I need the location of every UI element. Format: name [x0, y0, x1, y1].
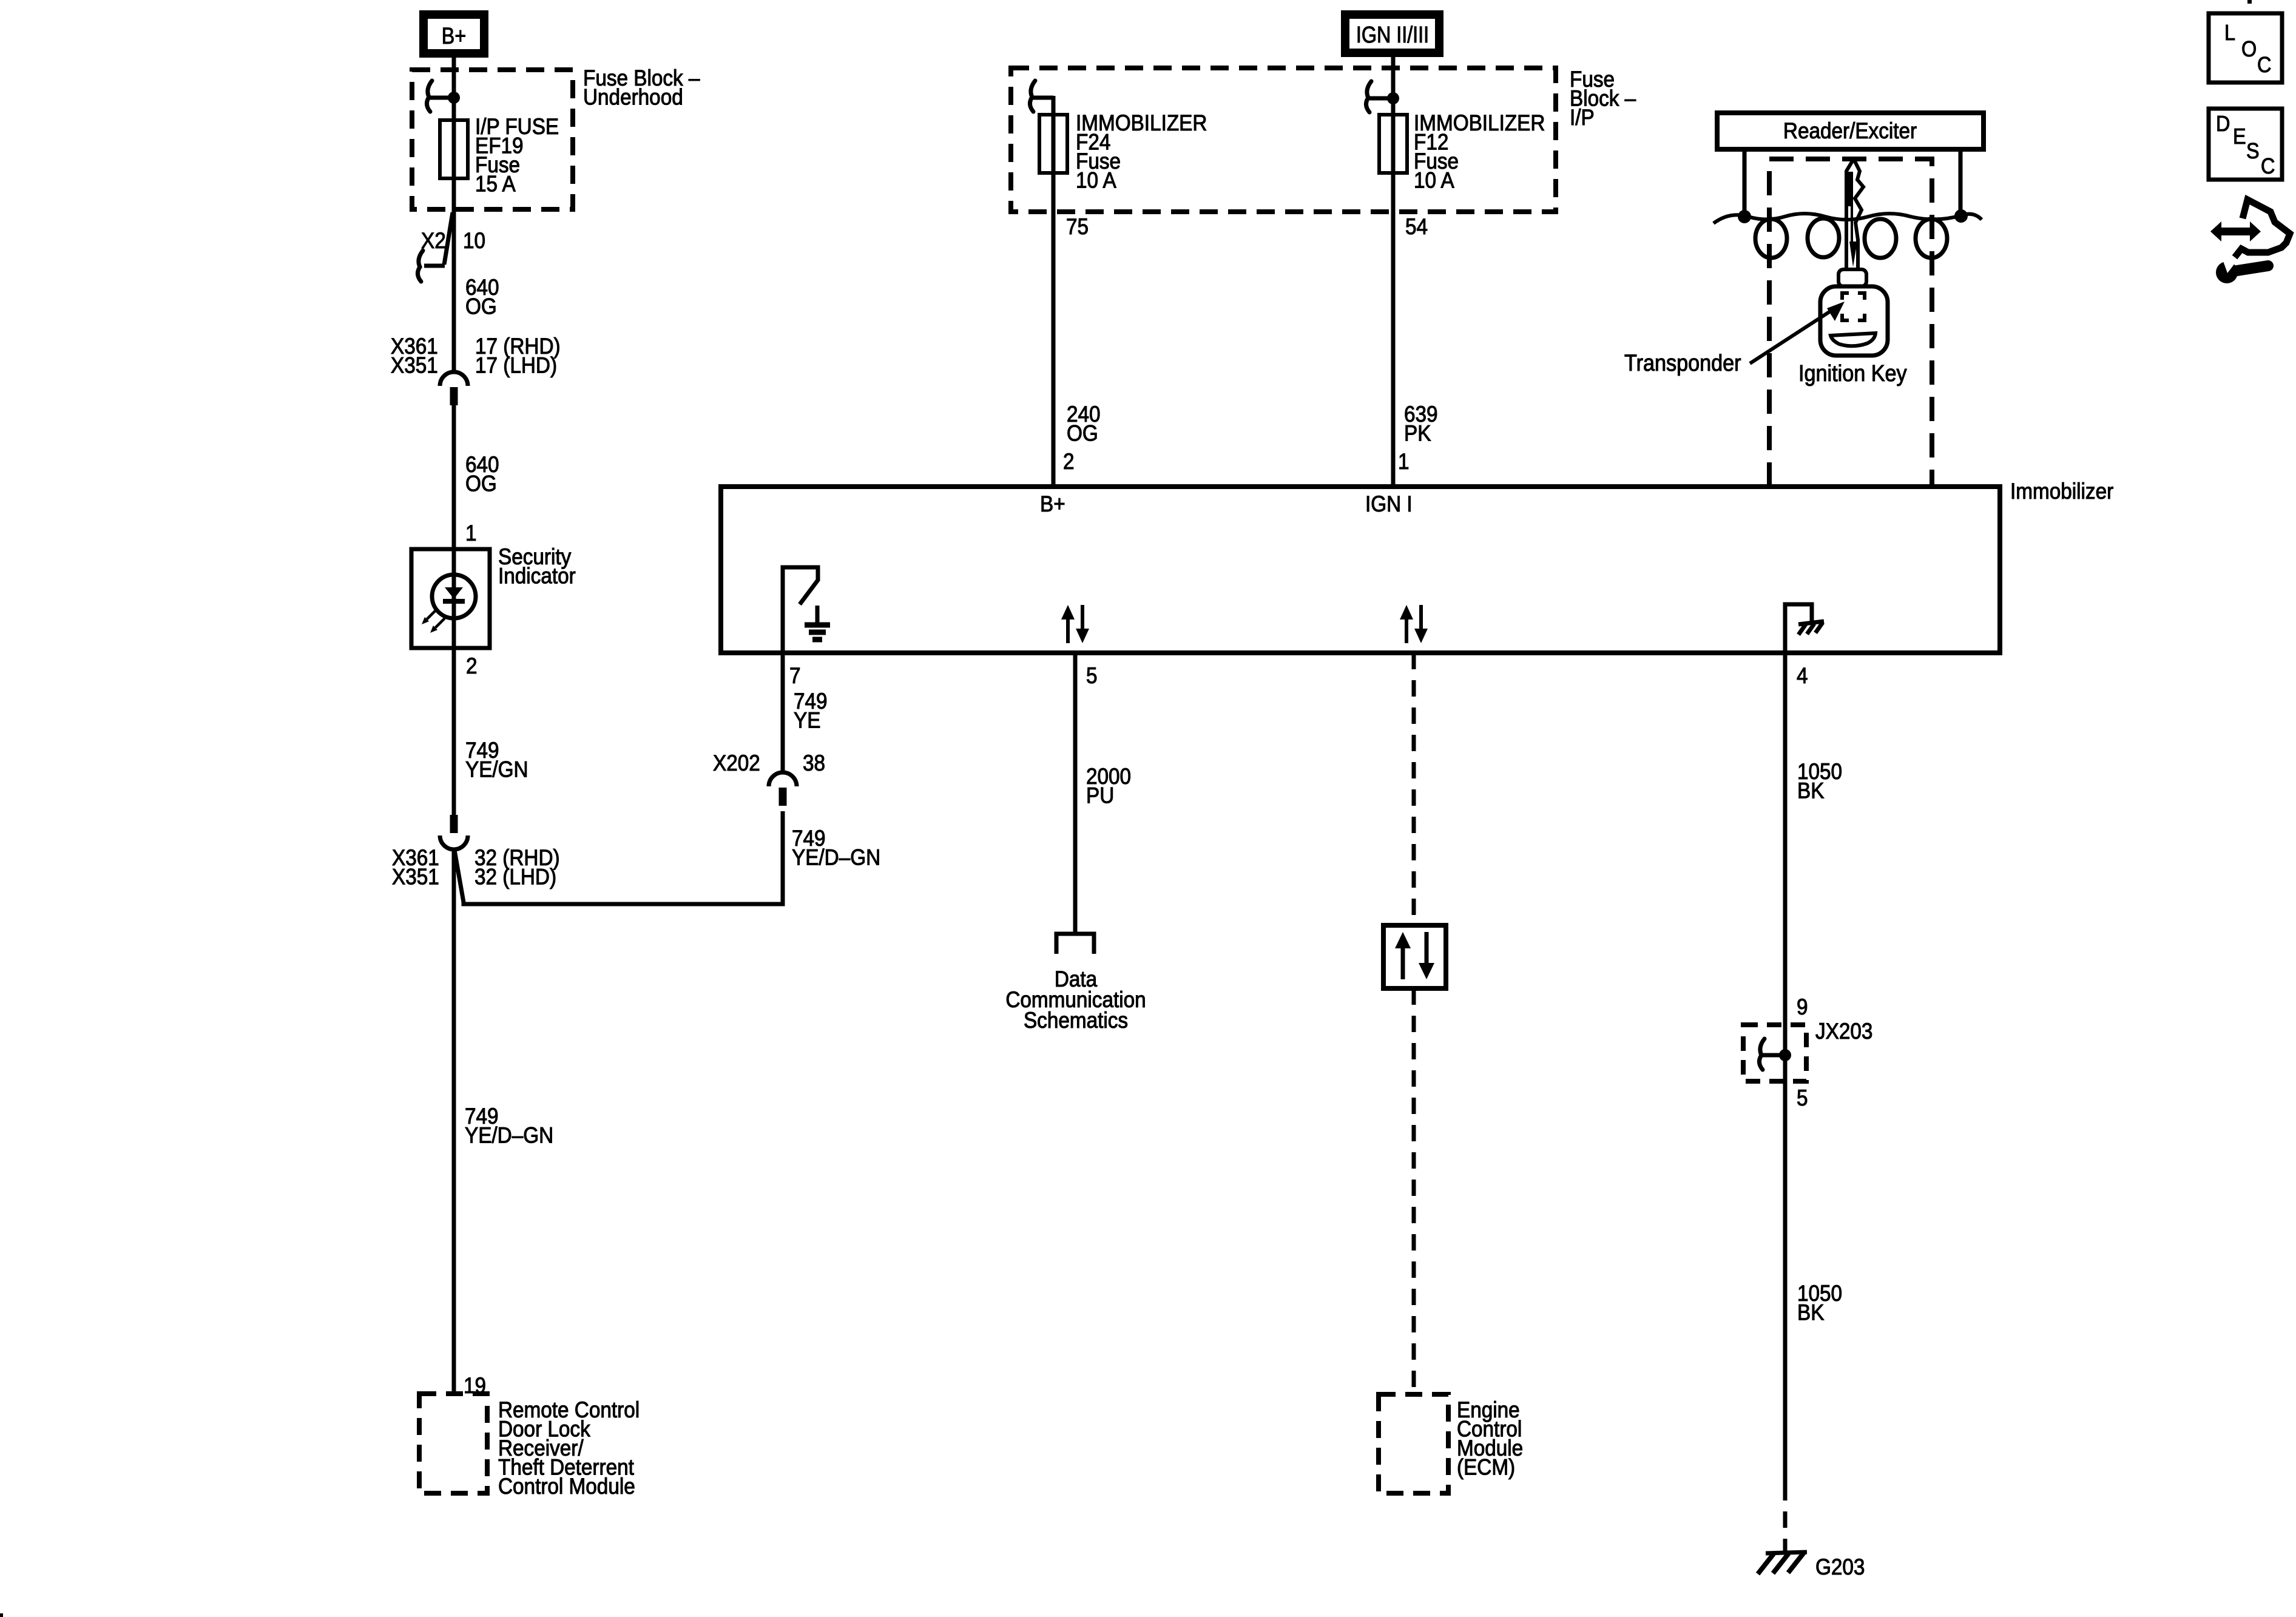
connector X2 clip — [417, 251, 423, 282]
svg-text:YE/D–GN: YE/D–GN — [792, 845, 880, 870]
svg-text:1: 1 — [1398, 449, 1410, 474]
coil loop 3 — [1865, 219, 1896, 258]
LOC legend box — [2209, 13, 2282, 83]
bus clip JX203 — [1759, 1039, 1764, 1070]
svg-text:2: 2 — [466, 653, 478, 678]
remote control door lock module dashed box — [419, 1394, 487, 1493]
junction dot JX203 — [1779, 1049, 1791, 1061]
svg-text:17 (LHD): 17 (LHD) — [475, 353, 557, 378]
svg-text:5: 5 — [1086, 663, 1098, 688]
svg-text:I/P: I/P — [1570, 105, 1595, 130]
svg-text:10 A: 10 A — [1414, 168, 1454, 193]
transponder marker brackets — [1842, 293, 1865, 320]
svg-text:9: 9 — [1797, 994, 1808, 1019]
power feed box B+ — [424, 15, 484, 53]
wire pin 4 1050 BK upper — [1783, 653, 1788, 1484]
coil loop 4 — [1916, 219, 1947, 258]
svg-text:Indicator: Indicator — [498, 564, 576, 589]
svg-text:BK: BK — [1797, 778, 1825, 803]
svg-text:54: 54 — [1405, 214, 1428, 239]
svg-text:X351: X351 — [391, 353, 438, 378]
off-page bracket to data schematics — [1056, 934, 1094, 954]
security indicator LED circle — [432, 575, 476, 618]
wire reader left leg — [1743, 149, 1747, 214]
bus clip at B+ fuse — [427, 81, 432, 112]
svg-text:BK: BK — [1797, 1300, 1825, 1325]
wire pin 7 749 YE — [781, 653, 785, 773]
svg-text:5: 5 — [1797, 1085, 1808, 1110]
immobilizer internal chassis ground (pin 4) — [1785, 604, 1812, 651]
wire 640 OG to security indicator — [452, 405, 456, 815]
svg-text:IGN II/III: IGN II/III — [1356, 22, 1429, 48]
junction connector JX203 dashed box — [1743, 1025, 1806, 1081]
svg-text:Control Module: Control Module — [498, 1474, 635, 1499]
svg-text:Ignition Key: Ignition Key — [1798, 360, 1907, 386]
immobilizer data arrows serial — [1405, 619, 1408, 643]
immobilizer internal switch to ground (pin 7) — [783, 567, 818, 651]
svg-text:Schematics: Schematics — [1024, 1008, 1128, 1033]
svg-text:C: C — [2257, 53, 2271, 77]
svg-text:YE/GN: YE/GN — [465, 757, 528, 782]
svg-text:C: C — [2261, 154, 2275, 178]
ignition key smile slot — [1831, 333, 1876, 346]
corner speck bottom-left — [0, 1613, 3, 1617]
wire IGN II/III down to immobilizer pin 1 — [1391, 57, 1396, 487]
serial data box — [1383, 925, 1446, 988]
svg-text:75: 75 — [1066, 214, 1089, 239]
ignition key head — [1820, 286, 1888, 356]
svg-text:O: O — [2241, 37, 2257, 61]
junction dot at B+ bus — [448, 92, 460, 104]
coil loop 2 — [1808, 218, 1839, 257]
svg-text:G203: G203 — [1815, 1555, 1865, 1579]
svg-text:X2: X2 — [421, 228, 446, 253]
security indicator light arrows — [427, 610, 437, 619]
bus clip at fuse F12 — [1366, 81, 1371, 112]
serial data box arrows — [1401, 948, 1405, 979]
power feed box IGN II/III — [1345, 15, 1439, 53]
bus clip at fuse F24 — [1030, 81, 1035, 112]
svg-text:X202: X202 — [713, 751, 760, 775]
svg-text:10 A: 10 A — [1076, 168, 1116, 193]
svg-text:15 A: 15 A — [475, 172, 516, 197]
inline connector X202 (dome and pin) — [769, 772, 797, 786]
engine control module dashed box — [1379, 1394, 1448, 1493]
corner speck top-right — [2247, 0, 2252, 4]
svg-text:OG: OG — [465, 471, 497, 496]
svg-text:Immobilizer: Immobilizer — [2010, 479, 2113, 504]
svg-text:PK: PK — [1404, 421, 1431, 446]
svg-text:OG: OG — [465, 294, 497, 319]
reader/exciter box — [1717, 113, 1984, 149]
ground G203 symbol — [1766, 1552, 1807, 1553]
exciter coil core wavy line — [1714, 214, 1982, 223]
fuse block I/P dashed box — [1011, 68, 1556, 212]
dashed wire to G203 — [1783, 1484, 1788, 1552]
svg-text:YE: YE — [794, 708, 820, 733]
svg-text:7: 7 — [789, 663, 801, 688]
svg-text:10: 10 — [463, 228, 485, 253]
security indicator LED diode — [445, 587, 463, 599]
svg-text:1: 1 — [465, 521, 477, 545]
wire fuse F24 to immobilizer pin 2 — [1052, 96, 1056, 487]
svg-text:PU: PU — [1086, 783, 1114, 808]
wire down to door module — [452, 849, 456, 1394]
svg-text:L: L — [2224, 21, 2235, 45]
svg-text:X351: X351 — [392, 865, 439, 890]
svg-text:YE/D–GN: YE/D–GN — [465, 1123, 553, 1148]
svg-text:E: E — [2233, 124, 2246, 149]
security indicator box — [411, 549, 490, 648]
svg-text:(ECM): (ECM) — [1457, 1455, 1515, 1480]
svg-text:2: 2 — [1063, 449, 1075, 474]
svg-text:S: S — [2246, 139, 2260, 163]
immobilizer module box — [721, 487, 2000, 653]
svg-text:OG: OG — [1067, 421, 1098, 446]
svg-text:IGN I: IGN I — [1365, 491, 1413, 516]
inline connector X361/X351 17 (dome and pin) — [440, 372, 468, 386]
service icon panel outline — [2235, 200, 2290, 257]
svg-text:D: D — [2216, 112, 2230, 136]
wire pin 5 2000 PU — [1073, 653, 1078, 934]
DESC legend box — [2209, 109, 2282, 180]
junction dot at F12 bus — [1387, 92, 1399, 104]
svg-text:38: 38 — [803, 751, 825, 775]
junction dot reader right — [1954, 209, 1968, 223]
fuse block underhood dashed box — [412, 70, 573, 209]
fuse F24 — [1039, 115, 1067, 173]
wire reader right leg — [1959, 149, 1963, 214]
svg-text:B+: B+ — [442, 24, 466, 49]
wire branch diagonal to X202 run — [454, 850, 464, 902]
ignition key dashed box — [1769, 159, 1932, 487]
wire B+ to fuse EF19 and down to connector — [452, 58, 456, 370]
fuse EF19 — [440, 120, 468, 178]
wire horizontal 749 YE/D-GN run — [464, 811, 783, 904]
ignition key neck — [1838, 269, 1866, 286]
svg-text:Reader/Exciter: Reader/Exciter — [1783, 118, 1917, 143]
dashed wire data box to ECM — [1412, 988, 1416, 1394]
ignition key blade — [1846, 159, 1863, 269]
svg-text:Transponder: Transponder — [1624, 349, 1741, 376]
svg-text:Underhood: Underhood — [583, 85, 683, 110]
junction dot reader left — [1738, 210, 1751, 223]
service icon double arrow — [2219, 228, 2252, 235]
immobilizer data arrows pin 5 — [1066, 619, 1070, 643]
immobilizer internal ground symbol — [815, 606, 820, 623]
transponder callout arrow — [1750, 311, 1831, 363]
svg-text:B+: B+ — [1040, 491, 1065, 516]
inline connector X361/X351 32 (pin and cup) — [450, 815, 458, 833]
coil loop 1 — [1755, 219, 1787, 258]
svg-text:JX203: JX203 — [1815, 1019, 1872, 1044]
dashed wire immobilizer to data box — [1412, 653, 1416, 925]
connector X2 crossing line — [444, 212, 453, 265]
fuse F12 — [1379, 115, 1407, 173]
service icon wrench — [2216, 262, 2238, 283]
svg-text:32 (LHD): 32 (LHD) — [474, 865, 556, 890]
svg-text:4: 4 — [1797, 663, 1808, 688]
